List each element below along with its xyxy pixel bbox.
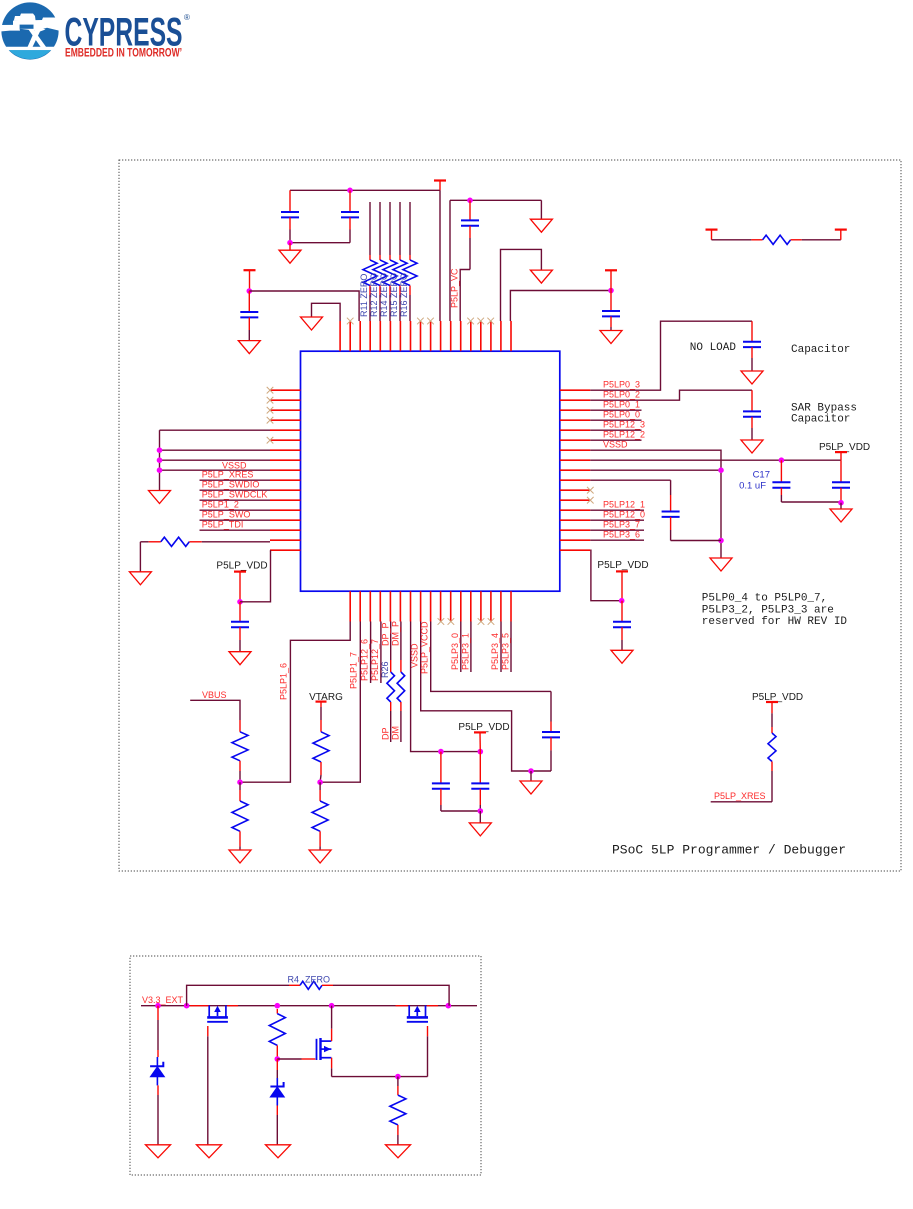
ground VBUS divider bbox=[229, 850, 251, 863]
transistor Q1 PMOS bbox=[207, 1005, 228, 1021]
svg-text:P5LP0_3: P5LP0_3 bbox=[603, 380, 640, 390]
svg-text:®: ® bbox=[184, 13, 190, 22]
wire pin 470 to VSSD vertical bbox=[590, 469, 721, 471]
wire P5LP_VC rail to ground bbox=[450, 199, 541, 201]
svg-text:P5LP_SWDIO: P5LP_SWDIO bbox=[202, 480, 260, 490]
svg-text:P5LP12_7: P5LP12_7 bbox=[370, 639, 380, 681]
wire net P5LP1_7 from pin 360 bbox=[320, 622, 360, 783]
wire left tap rail to pin 360 bbox=[249, 291, 359, 321]
svg-text:P5LP0_0: P5LP0_0 bbox=[603, 410, 640, 420]
svg-text:V3.3_EXT: V3.3_EXT bbox=[142, 995, 184, 1005]
junction VDD bottom cap a bbox=[438, 749, 444, 755]
svg-text:P5LP3_4: P5LP3_4 bbox=[490, 633, 500, 670]
svg-text:P5LP12_3: P5LP12_3 bbox=[603, 420, 645, 430]
wire net P5LP_SWO bbox=[200, 519, 271, 521]
svg-text:P5LP_SWDCLK: P5LP_SWDCLK bbox=[202, 490, 268, 500]
ground bend for pin 340 bbox=[301, 303, 341, 330]
ground pin 540 resistor bbox=[129, 572, 151, 585]
junction rail d bbox=[329, 1003, 335, 1009]
wire gate feed to Q3 bbox=[277, 1058, 315, 1060]
wire VSSD pin 470 bbox=[160, 469, 271, 471]
wire cap down to pin 460 bbox=[460, 270, 470, 322]
junction VSSD bottom ground bbox=[528, 768, 534, 774]
wire V3.3_EXT main rail bbox=[141, 1005, 477, 1007]
wire net P5LP12_2 bbox=[590, 439, 641, 441]
wire pin 510 rail bbox=[510, 291, 611, 322]
svg-text:P5LP3_7: P5LP3_7 bbox=[603, 520, 640, 530]
junction VSSD bus b bbox=[157, 457, 163, 463]
svg-text:P5LP_TDI: P5LP_TDI bbox=[202, 520, 244, 530]
svg-text:P5LP_VC: P5LP_VC bbox=[450, 268, 460, 308]
capacitor on P5LP_VC rail bbox=[461, 200, 479, 269]
wire Q1 gate to ground bbox=[207, 1026, 209, 1145]
transistor Q2 PMOS bbox=[407, 1005, 428, 1021]
svg-text:PSoC 5LP Programmer / Debugger: PSoC 5LP Programmer / Debugger bbox=[612, 843, 846, 858]
wire pin 500 to ground bbox=[501, 249, 542, 321]
svg-text:R14 ZERO: R14 ZERO bbox=[379, 273, 389, 317]
resistor R26 DP bbox=[387, 622, 395, 743]
wire pin 550 to P5LP_VDD tap bbox=[590, 550, 621, 601]
junction rail c bbox=[275, 1003, 281, 1009]
junction P5LP_VDD mid bbox=[619, 598, 625, 604]
wire Q3 source to bottom rail bbox=[332, 1058, 428, 1077]
ground below top-left caps bbox=[279, 243, 301, 264]
svg-text:P5LP_VCCD: P5LP_VCCD bbox=[420, 621, 430, 674]
svg-text:P5LP12_2: P5LP12_2 bbox=[603, 430, 645, 440]
ground zener D2 bbox=[266, 1145, 291, 1158]
stub net P5LP3_1 bbox=[470, 622, 472, 673]
svg-text:P5LP0_2: P5LP0_2 bbox=[603, 390, 640, 400]
junction bottom rail bbox=[395, 1074, 401, 1080]
power tap top bbox=[434, 181, 446, 191]
svg-text:P5LP3_0: P5LP3_0 bbox=[450, 633, 460, 670]
wire Q2 gate to bottom rail bbox=[427, 1026, 429, 1077]
junction P5LP_VDD right cap bottom bbox=[838, 500, 844, 506]
svg-text:P5LP12_1: P5LP12_1 bbox=[603, 500, 645, 510]
IC right pins bbox=[560, 390, 591, 550]
resistor mid divider bbox=[269, 1009, 285, 1059]
resistor XRES pull-up bbox=[768, 713, 776, 802]
P5LP_VDD tap bottom bbox=[458, 722, 509, 752]
ground Q1 bbox=[197, 1145, 222, 1158]
P5LP_VDD tap pull-up bbox=[752, 692, 803, 714]
wire VCC rail top bbox=[290, 189, 440, 191]
wire net P5LP12_1 bbox=[590, 509, 644, 511]
ground NO LOAD cap bbox=[741, 371, 763, 384]
junction VSSD right a bbox=[718, 467, 724, 473]
wire VBUS bbox=[190, 700, 240, 720]
stub net P5LP3_5 bbox=[510, 622, 512, 673]
svg-text:R15 ZERO: R15 ZERO bbox=[389, 273, 399, 317]
junction at cap bottom rail bbox=[287, 240, 293, 246]
stub net P5LP3_4 bbox=[500, 622, 502, 673]
svg-text:R12 ZERO: R12 ZERO bbox=[369, 273, 379, 317]
svg-text:R16 ZERO: R16 ZERO bbox=[399, 273, 409, 317]
svg-text:P5LP_SWO: P5LP_SWO bbox=[202, 510, 251, 520]
svg-text:P5LP_VDD: P5LP_VDD bbox=[216, 561, 267, 572]
NO LOAD capacitor bbox=[743, 321, 761, 371]
junction rail b bbox=[184, 1003, 190, 1009]
ground VSSD bottom bbox=[520, 771, 542, 794]
ground zener D1 bbox=[146, 1145, 171, 1158]
wire VSSD pin 450 bbox=[160, 449, 271, 451]
wire Q3 drain to rail bbox=[331, 1006, 333, 1041]
wire net P5LP0_0 bbox=[590, 419, 641, 421]
junction VDD bottom cap b bbox=[478, 749, 484, 755]
junction cap tap on P5LP_VC rail bbox=[467, 198, 473, 204]
junction VSSD bus c bbox=[157, 467, 163, 473]
IC top pins bbox=[340, 321, 511, 351]
svg-text:P5LP3_1: P5LP3_1 bbox=[461, 633, 471, 670]
label R4 ZERO bbox=[287, 975, 330, 985]
junction pin 510 rail bbox=[608, 288, 614, 294]
power tap P5LP_VDD right bbox=[819, 442, 870, 460]
junction VSSD right b bbox=[718, 538, 724, 544]
resistor bottom right box2 bbox=[390, 1077, 406, 1145]
capacitor below pin 510 rail bbox=[602, 291, 620, 331]
junction VDD bottom cap bottoms bbox=[478, 808, 484, 814]
stub net P5LP3_0 bbox=[460, 622, 462, 673]
junction C17 tap bbox=[779, 457, 785, 463]
svg-text:0.1 uF: 0.1 uF bbox=[739, 480, 766, 491]
resistor R11 ZERO bbox=[363, 202, 377, 321]
net P5LP_VC wire pin 450 bbox=[449, 200, 451, 321]
wire net P5LP1_6 from pin 350 bbox=[240, 622, 350, 783]
svg-text:ZERO: ZERO bbox=[305, 975, 330, 985]
no-connect marks top pins bbox=[347, 318, 494, 325]
SAR bypass capacitor bbox=[743, 390, 761, 440]
ground VSSD bus bbox=[149, 491, 171, 504]
junction VTARG divider bbox=[317, 779, 323, 785]
svg-text:NO LOAD: NO LOAD bbox=[690, 342, 737, 354]
capacitor C17 bbox=[772, 460, 841, 502]
wire net P5LP_XRES bbox=[711, 801, 772, 803]
svg-text:P5LP3_5: P5LP3_5 bbox=[501, 633, 511, 670]
ground below pin 510 cap bbox=[600, 331, 622, 344]
wire net P5LP12_0 bbox=[590, 519, 644, 521]
svg-text:DP_P: DP_P bbox=[381, 622, 391, 646]
svg-text:P5LP3_2, P5LP3_3 are: P5LP3_2, P5LP3_3 are bbox=[702, 604, 834, 616]
wire cap bottoms bbox=[290, 242, 350, 244]
wire from rail down to IC pin 440 bbox=[439, 190, 441, 321]
net P5LP0_3 wire to NO LOAD cap bbox=[590, 321, 752, 390]
junction on left tap rail bbox=[247, 288, 253, 294]
svg-text:DM_P: DM_P bbox=[391, 621, 401, 646]
svg-text:reserved for HW REV ID: reserved for HW REV ID bbox=[702, 616, 848, 628]
svg-text:R11 ZERO: R11 ZERO bbox=[359, 274, 369, 317]
svg-text:P5LP12_0: P5LP12_0 bbox=[603, 510, 645, 520]
stub net P5LP12_7 bbox=[380, 622, 382, 684]
schematic sheet 2 dotted border bbox=[130, 956, 481, 1175]
svg-text:P5LP1_6: P5LP1_6 bbox=[279, 663, 289, 700]
svg-text:C17: C17 bbox=[753, 470, 770, 481]
ground bottom right box2 bbox=[386, 1145, 411, 1158]
wire VDD bottom cap bottoms bbox=[441, 810, 480, 812]
wire net P5LP3_6 bbox=[590, 539, 644, 541]
zener diode D2 bbox=[270, 1059, 284, 1145]
capacitor P5LP_VDD mid bbox=[613, 601, 631, 651]
wire VSSD pin 460 bbox=[160, 459, 271, 461]
capacitor on pin 480 net bbox=[590, 480, 721, 540]
resistor R14 ZERO bbox=[383, 202, 397, 321]
resistor R16 ZERO bbox=[403, 202, 417, 321]
svg-text:R26: R26 bbox=[380, 661, 390, 678]
jumper resistor top right bbox=[706, 230, 847, 245]
resistor VTARG upper bbox=[313, 720, 329, 782]
svg-text:P5LP_XRES: P5LP_XRES bbox=[202, 470, 254, 480]
junction P5LP_VDD left bbox=[237, 599, 243, 605]
svg-text:P5LP1_7: P5LP1_7 bbox=[349, 652, 359, 689]
svg-text:DP: DP bbox=[381, 727, 391, 740]
svg-text:P5LP0_1: P5LP0_1 bbox=[603, 400, 640, 410]
wire pin 430 to VSSD bus bbox=[160, 429, 271, 431]
resistor R4 ZERO bypass loop bbox=[187, 981, 450, 1005]
capacitor P5LP_VDD left bbox=[231, 602, 249, 652]
resistor VBUS upper bbox=[232, 720, 248, 782]
VSSD bus vertical bbox=[159, 430, 161, 490]
P5LP_VDD tap mid bbox=[597, 560, 648, 601]
ground VTARG divider bbox=[309, 850, 331, 863]
junction at C-b top bbox=[347, 188, 353, 194]
wire VSSD right pin 450 bbox=[590, 450, 721, 558]
ground VSSD right bbox=[710, 558, 732, 571]
no-connect marks right pins bbox=[587, 487, 594, 504]
svg-text:P5LP1_2: P5LP1_2 bbox=[202, 500, 239, 510]
wire net P5LP_SWDCLK bbox=[200, 499, 271, 501]
transistor Q3 NMOS bbox=[317, 1038, 332, 1060]
ground right of P5LP_VC rail bbox=[530, 200, 552, 232]
no-connect marks bottom pins bbox=[438, 618, 495, 625]
resistor R12 ZERO bbox=[373, 202, 387, 321]
schematic sheet 1 dotted border bbox=[119, 160, 901, 871]
power tap on pin 510 rail bbox=[605, 270, 617, 290]
wire net P5LP_XRES bbox=[200, 479, 271, 481]
wire net P5LP1_2 bbox=[200, 509, 271, 511]
svg-text:P5LP12_6: P5LP12_6 bbox=[360, 639, 370, 681]
capacitor VCCD bypass bbox=[542, 691, 560, 771]
no-connect marks left pins bbox=[267, 387, 274, 444]
capacitor VDD bottom b bbox=[471, 752, 489, 811]
resistor on pin 540 net bbox=[140, 537, 270, 572]
capacitor P5LP_VDD right bbox=[832, 460, 850, 503]
ground SAR cap bbox=[741, 440, 763, 453]
junction VBUS divider bbox=[237, 779, 243, 785]
resistor VTARG lower bbox=[312, 782, 328, 850]
resistor R15 ZERO bbox=[393, 202, 407, 321]
ground VDD bottom caps bbox=[469, 811, 491, 836]
wire net P5LP3_7 bbox=[590, 529, 644, 531]
svg-text:P5LP3_6: P5LP3_6 bbox=[603, 530, 640, 540]
power tap left bbox=[244, 270, 256, 291]
power tap VTARG bbox=[316, 702, 327, 720]
junction VSSD bus a bbox=[157, 447, 163, 453]
svg-text:EMBEDDED IN TOMORROW’: EMBEDDED IN TOMORROW’ bbox=[65, 48, 182, 60]
svg-text:Capacitor: Capacitor bbox=[791, 414, 850, 426]
capacitor C-c on left tap bbox=[240, 291, 258, 341]
resistor VBUS lower bbox=[232, 782, 248, 850]
ground below C-c bbox=[238, 341, 260, 354]
junction rail a bbox=[155, 1003, 161, 1009]
wire net P5LP12_3 bbox=[590, 429, 641, 431]
zener diode D1 bbox=[150, 1006, 164, 1145]
svg-text:R4: R4 bbox=[287, 975, 299, 985]
wire net P5LP_TDI bbox=[200, 529, 271, 531]
Cypress logo circle with tree bbox=[0, 2, 59, 59]
red lead segments on rail bbox=[190, 1005, 438, 1007]
stub net P5LP12_6 bbox=[370, 622, 372, 684]
capacitor C-a bbox=[281, 190, 299, 242]
svg-text:P5LP0_4 to P5LP0_7,: P5LP0_4 to P5LP0_7, bbox=[702, 593, 827, 605]
wire net P5LP_SWDIO bbox=[200, 489, 271, 491]
IC left pins bbox=[270, 390, 301, 550]
IC U1 PSoC 5LP body bbox=[301, 351, 560, 591]
svg-text:VSSD: VSSD bbox=[603, 440, 628, 450]
ground P5LP_VDD left cap bbox=[229, 652, 251, 665]
ground P5LP_VDD mid cap bbox=[611, 650, 633, 663]
junction mid divider bbox=[275, 1056, 281, 1062]
capacitor C-b bbox=[341, 190, 359, 242]
capacitor VDD bottom a bbox=[432, 752, 450, 811]
wire net VSSD bottom pin 420 bbox=[421, 622, 551, 772]
resistor R26 DM bbox=[397, 622, 405, 743]
junction rail e bbox=[446, 1003, 452, 1009]
wire net P5LP0_1 bbox=[590, 409, 641, 411]
svg-text:P5LP_VDD: P5LP_VDD bbox=[597, 560, 648, 571]
svg-text:DM: DM bbox=[391, 726, 401, 740]
wire P5LP_VDD to pin 550 bbox=[240, 551, 271, 602]
wire P5LP_VDD rail bottom pin 410 bbox=[411, 622, 481, 752]
ground P5LP_VDD right bbox=[830, 503, 852, 522]
svg-text:Capacitor: Capacitor bbox=[791, 344, 850, 356]
net P5LP0_2 wire to SAR cap bbox=[590, 390, 752, 400]
svg-text:VBUS: VBUS bbox=[202, 690, 227, 700]
wire net P5LP_VCCD pin 430 bbox=[431, 622, 551, 692]
ground for pin 500 net bbox=[530, 270, 552, 283]
IC bottom pins bbox=[350, 591, 511, 621]
svg-text:P5LP_XRES: P5LP_XRES bbox=[714, 791, 766, 801]
P5LP_VDD tap left bbox=[216, 561, 267, 602]
wire P5LP_VDD rail right pin 460 bbox=[590, 459, 841, 461]
